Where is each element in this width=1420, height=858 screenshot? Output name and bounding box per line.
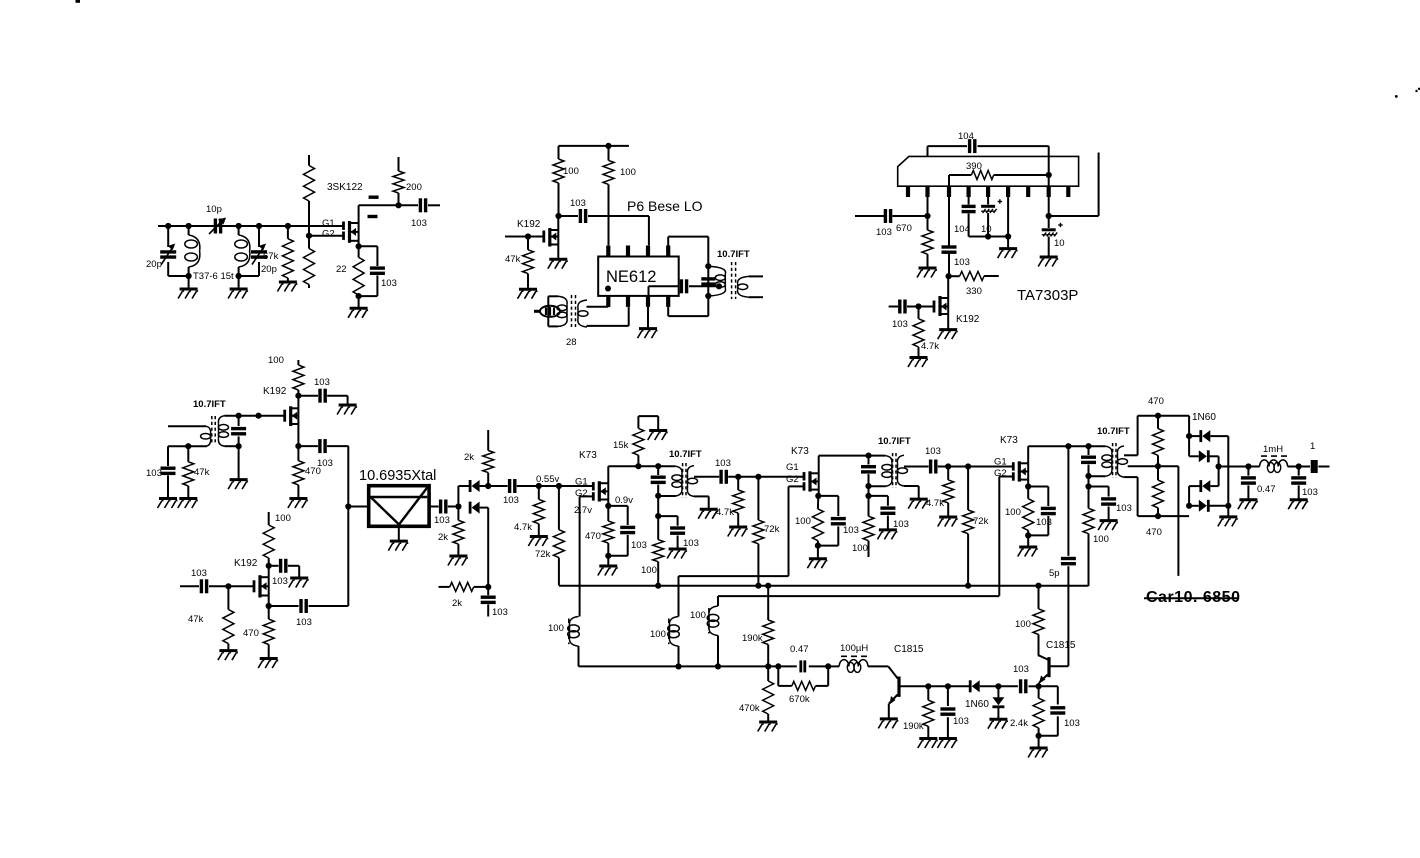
resistor 22 [353, 246, 364, 296]
transformer IFT2 primary [882, 456, 892, 487]
svg-text:103: 103 [146, 468, 162, 479]
resistor 100 ift1 bias [653, 516, 664, 586]
label 10 pin8 [1054, 238, 1065, 249]
svg-text:470: 470 [243, 628, 259, 639]
label 10.7IFT mixer [717, 249, 750, 260]
node pin5 junction [985, 233, 991, 239]
capacitor 103 pin3 [942, 197, 957, 276]
node IFT0 tap [716, 283, 722, 289]
label 20p #2 [261, 264, 277, 275]
svg-text:1mH: 1mH [1263, 444, 1283, 455]
resistor 200 [393, 157, 404, 205]
svg-text:G2: G2 [994, 468, 1007, 479]
svg-text:3SK122: 3SK122 [327, 182, 363, 193]
svg-text:10.7IFT: 10.7IFT [1097, 426, 1130, 437]
svg-text:20p: 20p [146, 259, 162, 270]
label 103 folout [317, 458, 333, 469]
node squelch junction [765, 663, 771, 669]
svg-text:470: 470 [1148, 396, 1164, 407]
capacitor 103 ift3 gnd [1089, 487, 1117, 521]
svg-text:G1: G1 [322, 218, 335, 229]
trimmer capacitor 20p [160, 226, 176, 276]
svg-text:103: 103 [1302, 487, 1318, 498]
label 100 agc [1093, 534, 1109, 545]
ground 103 ift2 [877, 530, 897, 540]
IC NE612 body [598, 257, 679, 296]
svg-text:C1815: C1815 [894, 644, 924, 655]
node follower drain [295, 393, 301, 409]
svg-text:0.9v: 0.9v [615, 495, 633, 506]
svg-text:4.7k: 4.7k [716, 507, 734, 518]
ground K192b source [938, 314, 958, 339]
transformer IFT0b primary [201, 426, 211, 446]
ground 4.7k ift1b [728, 527, 748, 537]
capacitor 103 K192b gate [889, 300, 934, 314]
svg-text:103: 103 [570, 198, 586, 209]
node choke b [675, 663, 681, 669]
label 20p [146, 259, 162, 270]
ground IFT0b sec [228, 446, 248, 489]
wire det sec bot [1124, 477, 1189, 516]
node bfo source [266, 596, 272, 610]
ground K192 source [548, 245, 568, 269]
node ift2 branch [865, 486, 871, 499]
label 100 k73b [795, 516, 811, 527]
svg-text:100: 100 [795, 516, 811, 527]
resistor 100 right [603, 146, 614, 245]
capacitor 103 squelch [940, 686, 955, 738]
svg-text:G1: G1 [575, 477, 588, 488]
ground pin8 [1038, 257, 1058, 267]
label 103 pin3 [954, 257, 970, 268]
node limiter mid [485, 483, 491, 489]
svg-text:104: 104 [958, 131, 974, 142]
label 100 choke a [548, 623, 564, 634]
svg-text:200: 200 [406, 182, 422, 193]
svg-text:100: 100 [690, 610, 706, 621]
capacitor resonant IFT0 [701, 279, 715, 284]
ground k73c source [1018, 535, 1038, 556]
ground 67k [277, 282, 297, 292]
resistor 190k squelch [763, 586, 774, 667]
svg-text:100: 100 [620, 167, 636, 178]
node tank1 bottom [186, 273, 192, 279]
svg-text:103: 103 [296, 617, 312, 628]
resistor 100 agc [1083, 487, 1094, 586]
capacitor 103 xtal out [429, 500, 458, 514]
choke 100 b [668, 617, 680, 647]
resistor 390 [949, 171, 1049, 187]
core IFT0 [732, 262, 736, 299]
capacitor 103 LO [559, 209, 649, 223]
svg-text:4.7k: 4.7k [921, 341, 939, 352]
node G2 bias [306, 233, 312, 239]
node det bot [1155, 513, 1161, 519]
ground 103 agc [158, 499, 178, 509]
node k73a source gnd [605, 553, 611, 559]
wire car test point [1158, 466, 1178, 576]
inductor 100uH [828, 656, 888, 672]
node 390 right [1046, 156, 1052, 186]
label 72k g1 [535, 549, 551, 560]
wire drain k73a [608, 466, 675, 483]
label 0.47 squelch [790, 644, 809, 655]
resistor 47k osc [523, 237, 534, 290]
resistor 470 det upper [1153, 416, 1164, 467]
transistor C1815 af [1039, 655, 1049, 686]
label 100 ift1 bias [641, 565, 657, 576]
svg-text:0.47: 0.47 [1257, 484, 1276, 495]
svg-text:100: 100 [1005, 507, 1021, 518]
label 10.7IFT 3 [1097, 426, 1130, 437]
label 3SK122 [327, 182, 363, 193]
capacitor 0.47 squelch [801, 660, 805, 672]
ground 103 audio [1288, 500, 1308, 510]
label K192 follower [263, 386, 287, 397]
node ift1 rail [655, 463, 661, 469]
wire det sec top [1124, 416, 1189, 456]
node 72k ift2 [965, 463, 971, 469]
wire IF in [168, 425, 206, 427]
label 0.55v [536, 474, 559, 485]
svg-text:47k: 47k [505, 254, 521, 265]
wire tank1 bottom [168, 275, 188, 277]
label TA7303P [1017, 287, 1078, 304]
ground follower drain cap [337, 405, 357, 415]
core IFT1 [683, 463, 686, 498]
svg-text:103: 103 [1064, 718, 1080, 729]
svg-text:G2: G2 [786, 474, 799, 485]
wire bus1 up right [1088, 534, 1090, 586]
node K192b gate [915, 303, 921, 309]
label C1815 squelch [894, 644, 924, 655]
wire ift2 prim bot [869, 485, 886, 487]
label 470k [739, 703, 760, 714]
capacitor 103 af bypass [1039, 686, 1066, 736]
svg-text:100: 100 [852, 543, 868, 554]
capacitor 103 af couple [998, 679, 1038, 693]
capacitor 103 ift1 out [721, 470, 804, 484]
capacitor 104 pin4 [962, 197, 989, 237]
resistor 4.7k ift1 [733, 477, 744, 527]
label 47k osc [505, 254, 521, 265]
node choke c [715, 663, 721, 669]
node sec bottom [236, 443, 242, 449]
ground 47k bfo [218, 651, 238, 661]
capacitor 103 audio [1291, 467, 1306, 500]
label 2k shunt [438, 532, 448, 543]
label 103 k73c src [1036, 517, 1052, 528]
diode limiter lower [470, 502, 488, 587]
label 100 af [1015, 619, 1031, 630]
mark thick dash lower [368, 215, 378, 218]
transformer IFT1 primary [672, 466, 682, 496]
wire IFT0 sec bottom [749, 296, 763, 298]
wire audio out [1219, 466, 1249, 468]
node bus 72k ift1 [755, 583, 761, 589]
svg-text:103: 103 [434, 515, 450, 526]
svg-text:K192: K192 [517, 219, 541, 230]
svg-text:103: 103 [925, 446, 941, 457]
label K192 TA [956, 314, 980, 325]
svg-text:10p: 10p [206, 204, 222, 215]
ground bfo drain cap [289, 578, 309, 588]
label 2k pullup [464, 452, 474, 463]
wire drain k73b [819, 456, 886, 474]
node ift3 branch [1085, 476, 1091, 490]
label 330 [966, 286, 982, 297]
wire det sec ct [1128, 465, 1158, 467]
svg-text:72k: 72k [764, 524, 780, 535]
transistor K192 osc [544, 228, 559, 247]
resistor 100 follower [293, 360, 304, 396]
resistor 47k bfo [223, 586, 234, 650]
ground source [348, 296, 368, 318]
node shunt diode [995, 683, 1001, 689]
capacitor 103 k73b src [818, 496, 846, 546]
pin1 dot NE612 [605, 286, 611, 292]
label 390 [966, 161, 982, 172]
label 103 af bypass [1064, 718, 1080, 729]
label 103 TA input [876, 227, 892, 238]
node tank1 top [165, 223, 171, 229]
wire prim gnd left [168, 446, 188, 466]
capacitor resonant IFT1 [651, 466, 666, 496]
label K192 osc [517, 219, 541, 230]
resistor 4.7k TA [913, 307, 924, 358]
wire bfo input [180, 579, 254, 593]
svg-text:C1815: C1815 [1046, 640, 1076, 651]
label G1 [322, 218, 335, 229]
transformer IFT3 secondary [1117, 446, 1127, 477]
transformer IFT1 secondary [687, 466, 697, 497]
pins NE612 top [608, 246, 668, 258]
label 104 pin4 [954, 224, 970, 235]
node k73c src gnd [1025, 532, 1031, 538]
capacitor 103 bfo out [269, 599, 349, 613]
svg-text:K192: K192 [263, 386, 287, 397]
node IFT0b prim gnd [185, 443, 191, 449]
ground 470k [758, 722, 778, 732]
diode det D2 [1189, 436, 1219, 466]
svg-text:2k: 2k [464, 452, 474, 463]
node limiter left [455, 503, 461, 509]
label 190k squelch [742, 633, 763, 644]
wire G1 k73a [539, 485, 594, 487]
node ift1 branch [655, 496, 661, 519]
transistor K73 first [580, 481, 609, 501]
node 2.4k bottom [1036, 733, 1042, 739]
node bus 190k [765, 583, 771, 589]
svg-text:103: 103 [492, 607, 508, 618]
label 100 bfo [275, 513, 291, 524]
label 4.7k ift1 [716, 507, 734, 518]
node loop bottom [705, 293, 711, 299]
capacitor 103 NE612 out [649, 279, 720, 293]
node bus 72k ift2 [965, 583, 971, 589]
node 0.55v [536, 483, 542, 489]
svg-text:1N60: 1N60 [965, 699, 989, 710]
svg-text:100: 100 [641, 565, 657, 576]
svg-text:10.7IFT: 10.7IFT [878, 436, 911, 447]
svg-text:T37-6 15t: T37-6 15t [193, 271, 234, 282]
label 0.47 audio [1257, 484, 1276, 495]
svg-text:P6 Bese LO: P6 Bese LO [627, 198, 703, 214]
label 4.7k TA [921, 341, 939, 352]
svg-text:20p: 20p [261, 264, 277, 275]
capacitor resonant IFT3 [1081, 446, 1096, 476]
node k73b source [815, 490, 821, 499]
svg-text:TA7303P: TA7303P [1017, 287, 1078, 304]
node pin6 junction [988, 197, 1011, 240]
transformer 28 primary [548, 296, 567, 326]
svg-text:103: 103 [953, 716, 969, 727]
svg-text:1: 1 [1310, 441, 1315, 452]
node follower source [295, 424, 301, 449]
node sec cap top [236, 413, 242, 419]
capacitor 103 stub [481, 587, 496, 617]
artifact marks [76, 0, 1420, 98]
svg-text:103: 103 [1013, 664, 1029, 675]
node rail [605, 143, 611, 149]
svg-text:1N60: 1N60 [1192, 412, 1216, 423]
node 67k resistor top [285, 223, 291, 229]
svg-text:103: 103 [381, 278, 397, 289]
svg-text:190k: 190k [903, 721, 924, 732]
node k73a source [605, 500, 611, 510]
wire osc loop [668, 237, 708, 317]
label 10.7IFT 2 [878, 436, 911, 447]
ground 2k shunt [448, 556, 468, 566]
core transformer 28 [572, 295, 576, 327]
wire choke b bottom [678, 646, 680, 666]
label 100uH [840, 643, 868, 654]
wire K192 gate [505, 236, 544, 238]
svg-text:4.7k: 4.7k [926, 498, 944, 509]
wire G2 k73a [579, 496, 581, 616]
capacitor 103 k73a src [608, 506, 635, 556]
label 72k ift2 [973, 516, 989, 527]
node 5p rail [1065, 443, 1071, 449]
label K73 second [791, 446, 809, 457]
label 10.6935Xtal [359, 468, 436, 484]
ground 670 [917, 268, 937, 278]
node audio 2 [1296, 463, 1302, 469]
node 103 base [945, 683, 951, 689]
capacitor 103 ift2 out [931, 460, 1014, 474]
core IFT2 [893, 453, 896, 488]
svg-text:103: 103 [892, 319, 908, 330]
ground 15k [648, 431, 668, 441]
capacitor 103 k73c src [1028, 487, 1056, 536]
svg-text:103: 103 [272, 576, 288, 587]
svg-text:100: 100 [268, 355, 284, 366]
wire to pin top [648, 216, 650, 245]
wire 28 sec top [587, 306, 609, 308]
node source bottom [356, 293, 362, 299]
svg-text:2k: 2k [438, 532, 448, 543]
wire K192b drain [947, 276, 949, 298]
label 22 [336, 264, 347, 275]
resistor 470 k73a [603, 506, 614, 556]
ground 103 ift3 [1098, 521, 1118, 531]
resistor 2k bfo [439, 582, 489, 591]
svg-text:K73: K73 [791, 446, 809, 457]
label 100 right [620, 167, 636, 178]
svg-text:100: 100 [1093, 534, 1109, 545]
node 4.7k ift1 [735, 474, 741, 480]
svg-text:10: 10 [981, 224, 992, 235]
label 100 follower [268, 355, 284, 366]
resistor divider upper [304, 155, 315, 236]
resistor 2k shunt [453, 507, 464, 557]
crystal 10.6935Xtal box [369, 486, 429, 527]
label NE612 [606, 268, 656, 286]
svg-text:670k: 670k [789, 694, 810, 705]
node loop top [705, 263, 711, 269]
transformer IFT3 primary [1102, 446, 1112, 476]
node ift1 prim bot [655, 493, 661, 499]
label 103 audio [1302, 487, 1318, 498]
capacitor 103 follower drain [298, 389, 347, 405]
transformer 28 secondary [578, 300, 588, 327]
resistor divider lower [304, 236, 315, 288]
label 103 ift2 gnd [893, 519, 909, 530]
diode det D4 [1186, 486, 1231, 512]
svg-text:103: 103 [683, 538, 699, 549]
resistor 470 bfo [263, 606, 274, 659]
node k73c source [1025, 480, 1031, 490]
resistor 4.7k g1 [533, 486, 544, 537]
svg-text:2k: 2k [452, 598, 462, 609]
node drain 200 [395, 202, 401, 208]
label 103 bfodr [272, 576, 288, 587]
label T37-6 15t [193, 271, 234, 282]
svg-text:470k: 470k [739, 703, 760, 714]
wire af base [1049, 665, 1068, 667]
svg-text:330: 330 [966, 286, 982, 297]
inductor tank2 [235, 226, 250, 276]
node 72k g1 [556, 483, 562, 489]
label 10p [206, 204, 222, 215]
label 5p [1049, 568, 1060, 579]
capacitor 5p feedback [1061, 446, 1076, 666]
svg-text:5p: 5p [1049, 568, 1060, 579]
svg-text:10.7IFT: 10.7IFT [717, 249, 750, 260]
transformer IFT0b secondary [218, 416, 228, 447]
svg-text:K192: K192 [234, 558, 258, 569]
wire drain up [359, 205, 399, 223]
wire ift2 sec top [904, 466, 929, 468]
node 15k [635, 463, 641, 469]
svg-text:100: 100 [548, 623, 564, 634]
electrolytic 10 pin5 [981, 197, 1002, 237]
diode limiter upper [458, 480, 488, 492]
svg-text:67k: 67k [263, 251, 279, 262]
ground tank2 [228, 276, 248, 299]
ground ift1 sec [698, 509, 718, 519]
wire choke c bottom [717, 636, 719, 667]
ground 470 follower [288, 499, 308, 509]
ground ift2 sec [908, 499, 928, 509]
node trimmer2 top [256, 223, 262, 229]
node ift3 prim bot [1085, 473, 1091, 479]
svg-text:G1: G1 [994, 457, 1007, 468]
capacitor 103 bfo drain [269, 559, 300, 578]
resistor 67k [282, 226, 293, 281]
node tank2 top [236, 223, 242, 229]
node det top [1155, 413, 1161, 419]
